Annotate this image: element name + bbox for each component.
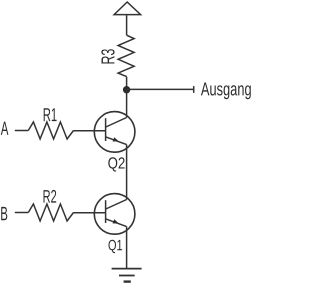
ground (112, 269, 142, 282)
label Q2 (108, 157, 124, 171)
label Ausgang (201, 83, 251, 100)
label A (1, 122, 9, 135)
label R3 (101, 49, 114, 63)
wire node to Q2 collector (126, 89, 128, 117)
label R1 (44, 108, 57, 121)
wire R1 to Q2 base (74, 130, 106, 132)
label B (1, 207, 7, 220)
wire VCC to R3 (126, 15, 128, 35)
label Q1 (109, 240, 123, 253)
wire B to R2 (15, 212, 28, 214)
terminal tick Ausgang (193, 86, 195, 93)
wire R2 to Q1 base (74, 212, 106, 214)
resistor R1 (28, 122, 73, 139)
node output junction (123, 86, 130, 93)
power supply VCC symbol (114, 2, 141, 15)
transistor Q1 (94, 194, 135, 235)
wire node to output terminal (127, 88, 194, 90)
resistor R3 (118, 35, 134, 76)
label R2 (44, 190, 57, 203)
wire A to R1 (15, 130, 28, 132)
resistor R2 (28, 204, 73, 221)
wire R3 to node (126, 77, 128, 90)
transistor Q2 (94, 112, 135, 153)
wire Q1 emitter to ground (126, 227, 128, 269)
wire Q2 emitter to Q1 collector (126, 145, 128, 200)
